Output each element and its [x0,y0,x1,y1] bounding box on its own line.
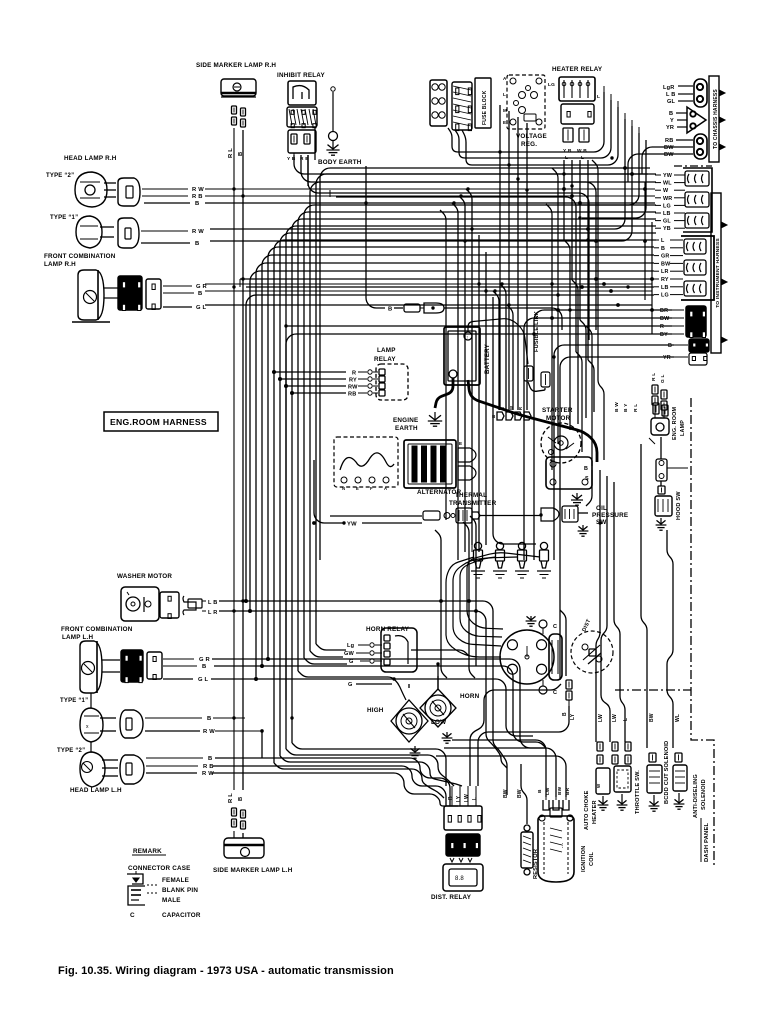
svg-text:WASHER MOTOR: WASHER MOTOR [117,573,172,580]
svg-text:RB: RB [665,138,673,144]
svg-text:LY: LY [570,713,576,720]
svg-text:B: B [500,407,505,410]
svg-text:COIL: COIL [589,851,595,866]
svg-text:B: B [669,111,673,117]
svg-text:HEAD LAMP L.H: HEAD LAMP L.H [70,787,122,794]
svg-text:M: M [503,108,507,113]
svg-text:B: B [207,716,211,722]
svg-text:B Y: B Y [623,403,629,412]
svg-text:W: W [663,188,669,194]
svg-text:ENG.ROOM HARNESS: ENG.ROOM HARNESS [110,417,207,427]
svg-text:GR: GR [661,254,670,260]
svg-text:C: C [130,912,135,919]
svg-text:HEATER RELAY: HEATER RELAY [552,66,603,73]
svg-text:RELAY: RELAY [374,356,396,363]
svg-text:LW: LW [598,714,604,722]
svg-text:C: C [553,690,557,696]
svg-text:R W: R W [203,729,215,735]
svg-text:WL: WL [663,181,672,187]
svg-text:LAMP: LAMP [680,420,686,436]
svg-text:RB: RB [348,392,356,398]
svg-text:E: E [459,441,462,446]
svg-text:R L: R L [651,373,657,381]
svg-text:YW: YW [347,522,357,528]
svg-text:8.8: 8.8 [455,876,464,882]
svg-text:E: E [503,120,506,125]
svg-text:WR: WR [663,196,672,202]
svg-text:BLANK PIN: BLANK PIN [162,887,198,894]
svg-text:BW: BW [660,316,670,322]
svg-text:B: B [448,796,454,800]
svg-text:W: W [596,783,601,788]
svg-text:GW: GW [344,651,355,657]
svg-text:B: B [238,797,244,801]
svg-text:YR: YR [666,125,674,131]
svg-text:L B: L B [208,600,218,606]
svg-text:DIST. RELAY: DIST. RELAY [431,894,472,901]
svg-text:YB: YB [663,226,671,232]
svg-text:S: S [585,476,589,482]
svg-text:FUSE BLOCK: FUSE BLOCK [482,90,488,125]
svg-text:L B: L B [666,92,676,98]
svg-text:Fig. 10.35. Wiring diagram - 1: Fig. 10.35. Wiring diagram - 1973 USA - … [58,965,394,977]
svg-text:INHIBIT RELAY: INHIBIT RELAY [277,72,325,79]
svg-text:B: B [562,712,568,716]
svg-text:L R: L R [208,610,218,616]
svg-text:LG: LG [663,203,671,209]
svg-text:LG: LG [661,293,669,299]
svg-text:B: B [202,664,206,670]
svg-text:EARTH: EARTH [395,425,418,432]
svg-text:F: F [370,486,373,491]
svg-text:LAMP R.H: LAMP R.H [44,261,76,268]
svg-text:R: R [660,324,664,330]
svg-text:HORN: HORN [460,693,480,700]
svg-text:RY: RY [661,277,669,283]
svg-text:ANTI-DISELING: ANTI-DISELING [693,774,699,818]
svg-text:LW: LW [612,714,618,722]
svg-text:B W: B W [614,402,620,412]
svg-text:L: L [661,238,665,244]
svg-text:W B: W B [577,148,587,154]
svg-text:A: A [384,486,387,491]
svg-text:Y: Y [670,118,674,124]
svg-text:OIL: OIL [596,505,607,512]
svg-text:HOOD SW: HOOD SW [676,491,682,520]
svg-text:VOLTAGE: VOLTAGE [516,133,547,140]
svg-text:L: L [472,797,478,800]
svg-text:LW: LW [464,794,470,802]
svg-text:B: B [195,201,199,207]
svg-text:G R: G R [196,284,208,290]
svg-text:B: B [661,246,665,252]
svg-text:R L: R L [633,404,639,412]
svg-text:TYPE “2”: TYPE “2” [46,173,74,179]
svg-text:WL: WL [675,714,681,722]
svg-text:B: B [195,241,199,247]
svg-text:CONNECTOR CASE: CONNECTOR CASE [128,865,191,872]
svg-text:R W: R W [192,229,204,235]
svg-text:FRONT COMBINATION: FRONT COMBINATION [61,626,133,633]
svg-text:SIDE MARKER LAMP R.H: SIDE MARKER LAMP R.H [196,62,276,69]
svg-text:SOLENOID: SOLENOID [701,779,707,810]
svg-text:R B: R B [203,764,214,770]
svg-text:R: R [518,407,523,410]
svg-text:LR: LR [661,269,669,275]
svg-text:ENG. ROOM: ENG. ROOM [672,406,678,440]
svg-text:HEAD LAMP R.H: HEAD LAMP R.H [64,155,117,162]
svg-text:BW: BW [503,789,509,798]
svg-text:TYPE “1”: TYPE “1” [60,698,88,704]
svg-text:GL: GL [667,99,676,105]
svg-text:BW: BW [664,152,674,158]
svg-text:HORN RELAY: HORN RELAY [366,626,410,633]
svg-text:x: x [86,724,89,730]
svg-text:G L: G L [198,677,209,683]
svg-text:BW: BW [664,145,674,151]
svg-text:GL: GL [663,219,671,225]
svg-text:B: B [537,789,543,793]
svg-text:RW: RW [348,385,358,391]
svg-text:R W: R W [192,187,204,193]
svg-text:REMARK: REMARK [133,848,162,855]
svg-text:B: B [198,291,202,297]
svg-text:BODY EARTH: BODY EARTH [318,159,362,166]
svg-text:TRANSMITTER: TRANSMITTER [449,500,497,507]
svg-text:HEATER: HEATER [592,800,598,824]
svg-text:LB: LB [661,285,669,291]
svg-text:G: G [349,659,354,665]
svg-text:R L: R L [228,793,234,803]
svg-text:L: L [623,718,629,721]
svg-text:TO CHASSIS HARNESS: TO CHASSIS HARNESS [713,89,719,149]
svg-text:FEMALE: FEMALE [162,877,189,884]
svg-text:LB: LB [663,211,671,217]
svg-text:ENGINE: ENGINE [393,417,418,424]
svg-text:AUTO CHOKE: AUTO CHOKE [584,790,590,830]
svg-text:L: L [503,92,506,97]
svg-text:TO INSTRUMENT HARNESS: TO INSTRUMENT HARNESS [715,238,721,308]
svg-text:THERMAL: THERMAL [455,492,487,499]
svg-text:BY: BY [660,332,668,338]
svg-text:YR: YR [663,355,671,361]
svg-text:BR: BR [660,308,668,314]
svg-text:R W: R W [202,771,214,777]
svg-text:B: B [668,343,672,349]
svg-text:B: B [388,307,392,313]
svg-text:C: C [553,624,557,630]
svg-text:R L: R L [228,148,234,158]
svg-text:BCDD CUT SOLENOID: BCDD CUT SOLENOID [664,741,670,804]
svg-text:SIDE MARKER LAMP L.H: SIDE MARKER LAMP L.H [213,867,293,874]
svg-text:↑: ↑ [466,335,469,341]
svg-text:CAPACITOR: CAPACITOR [162,912,201,919]
svg-text:YW: YW [663,173,673,179]
svg-text:E: E [356,486,359,491]
svg-text:FRONT COMBINATION: FRONT COMBINATION [44,253,116,260]
svg-text:LAMP L.H: LAMP L.H [62,634,93,641]
svg-text:THROTTLE SW.: THROTTLE SW. [635,770,641,814]
svg-text:LAMP: LAMP [377,347,396,354]
svg-text:RY: RY [349,378,357,384]
svg-text:G L: G L [660,374,666,383]
svg-text:LY: LY [456,795,462,802]
svg-text:R: R [352,371,356,377]
svg-text:G R: G R [199,657,211,663]
svg-text:BW: BW [661,261,671,267]
svg-text:PRESSURE: PRESSURE [592,512,628,519]
svg-text:REG.: REG. [521,141,537,148]
svg-text:B: B [584,466,588,472]
svg-text:L: L [597,94,600,100]
svg-text:⋮: ⋮ [560,842,565,849]
svg-text:G: G [348,682,353,688]
svg-text:N: N [342,486,345,491]
svg-text:HIGH: HIGH [367,707,384,714]
svg-text:R B: R B [192,194,203,200]
svg-text:Y B: Y B [563,148,572,154]
svg-text:IGNITION: IGNITION [581,846,587,872]
svg-text:MALE: MALE [162,897,181,904]
svg-text:LgR: LgR [663,85,674,91]
svg-text:TYPE “2”: TYPE “2” [57,748,85,754]
svg-text:BATTERY: BATTERY [484,343,491,374]
svg-text:G L: G L [196,305,207,311]
svg-text:DASH PANEL: DASH PANEL [704,822,710,862]
svg-text:A: A [503,76,507,81]
svg-text:Lg: Lg [347,643,355,649]
svg-text:BW: BW [649,713,655,722]
svg-text:TYPE “1”: TYPE “1” [50,215,78,221]
svg-text:BW: BW [557,786,563,795]
svg-text:LG: LG [548,82,555,88]
svg-text:B: B [208,756,212,762]
